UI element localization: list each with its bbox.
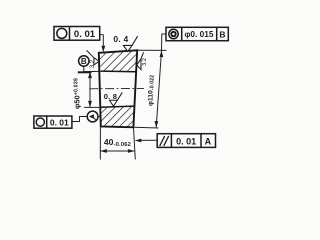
- svg-text:0. 8: 0. 8: [104, 92, 117, 101]
- svg-text:A: A: [205, 136, 212, 146]
- svg-text:3.2: 3.2: [142, 58, 148, 66]
- svg-text:φ110-0.022: φ110-0.022: [147, 75, 155, 106]
- svg-text:0. 01: 0. 01: [176, 136, 196, 146]
- svg-text:B: B: [219, 29, 225, 39]
- svg-text:3.2: 3.2: [90, 59, 96, 68]
- svg-text:0. 01: 0. 01: [50, 117, 69, 127]
- svg-text:0. 4: 0. 4: [113, 34, 128, 44]
- svg-text:B: B: [81, 57, 87, 66]
- svg-text:0. 01: 0. 01: [74, 29, 96, 40]
- svg-text:φ0. 015: φ0. 015: [184, 29, 213, 39]
